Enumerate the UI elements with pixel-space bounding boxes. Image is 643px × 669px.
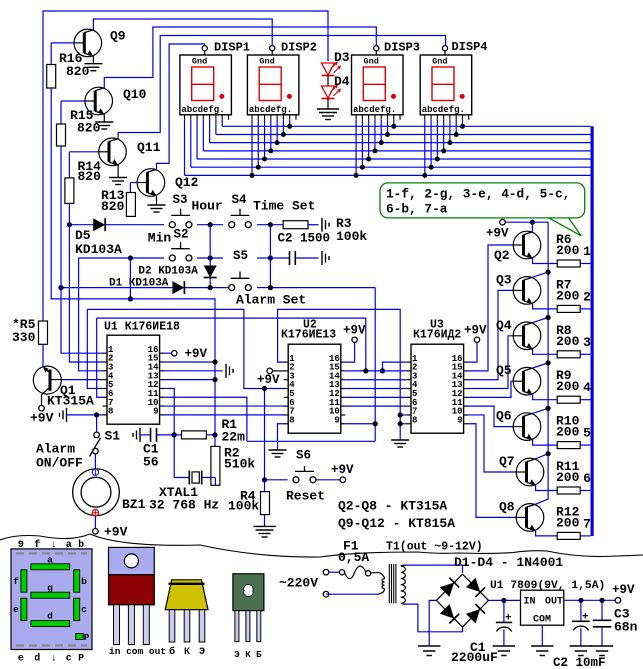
resistor R13 820 [101, 183, 135, 217]
svg-text:Gnd: Gnd [364, 57, 379, 67]
svg-text:Gnd: Gnd [259, 57, 274, 67]
wire U3 pin9 to Q8 base [468, 424, 516, 518]
label Time Set [253, 199, 315, 214]
svg-text:+9V: +9V [343, 324, 366, 338]
wire U3 pin13 to Q4 base [468, 336, 513, 389]
transistor Q10 [85, 87, 147, 115]
bus right vertical [591, 126, 594, 536]
svg-text:2200uF: 2200uF [451, 650, 498, 665]
resistor R1 22m [172, 417, 246, 445]
svg-text:Э: Э [234, 650, 240, 660]
capacitor C2 1500 [270, 232, 330, 266]
display pin drops to bus [185, 120, 465, 178]
svg-text:Q4: Q4 [496, 318, 512, 333]
svg-text:C2 10mF: C2 10mF [553, 656, 606, 669]
svg-text:820: 820 [101, 199, 125, 214]
wire U3 pin14 to Q3 base [468, 290, 513, 379]
wire alarm row [58, 285, 375, 290]
label Q9-Q12 KT815A [338, 516, 455, 531]
svg-text:510k: 510k [224, 457, 255, 472]
terminal +9V Q1 [30, 405, 54, 425]
svg-text:200: 200 [556, 379, 580, 394]
wire Q10 base [61, 100, 85, 102]
wire U3 pin12 to Q5 base [468, 381, 513, 397]
wire S1 to buzzer [94, 454, 96, 469]
switch S4 [229, 193, 252, 228]
label Min [148, 231, 172, 246]
svg-text:P: P [78, 654, 84, 665]
svg-text:К176ИД2: К176ИД2 [413, 329, 461, 342]
label Hour [192, 199, 223, 214]
svg-text:c: c [66, 654, 72, 665]
wire U3 pin11 to Q6 base [468, 406, 513, 426]
switch S2 [169, 228, 192, 262]
wire Q11 base [69, 151, 98, 153]
diode D1 KD103A [109, 278, 184, 295]
wire rail under U2 [247, 440, 375, 442]
transistor Q12 [137, 169, 199, 197]
svg-text:abcdefg.: abcdefg. [422, 105, 465, 115]
svg-text:S3: S3 [173, 193, 188, 207]
svg-text:KT315A: KT315A [47, 394, 94, 409]
terminal +9V U2 pin2 [257, 368, 285, 387]
svg-text:b: b [78, 539, 84, 551]
svg-text:+9V: +9V [257, 373, 280, 387]
switch S5 [229, 249, 252, 291]
wire Q2 collector [531, 222, 533, 232]
svg-text:Q10: Q10 [123, 87, 147, 102]
wire Q11 collector to DISP4 Gnd [118, 36, 446, 139]
terminal +9V buzzer [93, 516, 128, 540]
wire bridge to IN [489, 598, 521, 603]
IC U1 K176IE18 [103, 321, 180, 425]
svg-text:d: d [47, 611, 53, 622]
svg-text:9: 9 [18, 540, 24, 551]
svg-text:~220V: ~220V [279, 576, 318, 591]
svg-text:S2: S2 [174, 228, 189, 242]
svg-text:KD103A: KD103A [75, 242, 122, 257]
segment bus lines 1-7 [185, 126, 591, 175]
ground U3 pin7 pin8 [391, 412, 409, 447]
svg-text:200: 200 [556, 425, 580, 440]
diode D5 KD103A [75, 218, 122, 257]
svg-text:+9V: +9V [464, 324, 487, 338]
resistor R3 100k [283, 216, 367, 244]
wire hour row [67, 222, 283, 227]
wire Q4 collector [533, 315, 551, 323]
svg-text:820: 820 [78, 169, 102, 184]
switch S6 [293, 449, 316, 483]
svg-text:200: 200 [556, 470, 580, 485]
label ~220V [279, 576, 318, 591]
transistor Q6 [496, 409, 541, 441]
resistor R6 200 [556, 232, 591, 267]
svg-text:Q12: Q12 [175, 175, 199, 190]
svg-text:68n: 68n [614, 620, 638, 635]
svg-text:Hour: Hour [192, 199, 223, 214]
transistor Q2 [494, 231, 541, 263]
wire U2 pin9 [345, 421, 378, 426]
resistor R10 200 [556, 414, 591, 449]
wire U1 pin16 +9V [164, 347, 208, 361]
resistor R9 200 [556, 368, 591, 403]
ground U1 pin14 [164, 364, 233, 378]
wire min row [128, 255, 273, 260]
terminal mains top [323, 569, 329, 575]
svg-text:5: 5 [583, 426, 591, 441]
svg-text:К176ИЕ13: К176ИЕ13 [281, 329, 336, 342]
svg-text:+9V: +9V [104, 525, 128, 540]
svg-text:9: 9 [153, 407, 158, 417]
package KT815 pinout [165, 580, 208, 658]
transistor Q4 [496, 318, 541, 350]
wire reset column [262, 386, 267, 480]
svg-text:S1: S1 [105, 429, 121, 444]
svg-text:К: К [245, 650, 251, 660]
svg-text:ON/OFF: ON/OFF [36, 456, 83, 471]
svg-text:8: 8 [289, 415, 294, 425]
transistor Q9 [74, 29, 126, 57]
svg-text:D2 KD103A: D2 KD103A [138, 266, 198, 278]
svg-text:4: 4 [583, 380, 591, 395]
terminal mains bottom [323, 591, 329, 597]
regulator U1 7809 [521, 590, 564, 655]
svg-text:Reset: Reset [286, 489, 325, 504]
svg-text:g: g [47, 583, 53, 594]
wire U1 pin15 [164, 359, 218, 364]
svg-text:56: 56 [143, 455, 159, 470]
resistor R7 200 [556, 277, 591, 312]
svg-text:+9V: +9V [486, 227, 509, 241]
svg-text:330: 330 [12, 330, 36, 345]
wire Q12 collector to DISP1 Gnd [157, 44, 205, 169]
svg-text:200: 200 [556, 288, 580, 303]
svg-text:Q8: Q8 [499, 499, 515, 514]
ground Q12 emitter [148, 196, 166, 212]
svg-text:OUT: OUT [545, 597, 563, 608]
svg-text:Min: Min [148, 231, 172, 246]
wire rail to U2 pin4 [87, 309, 284, 388]
transistor Q1 KT315A [33, 344, 94, 408]
wire alarm col down [374, 288, 376, 442]
wire S6 to +9V [316, 463, 354, 483]
transformer T1 [326, 564, 407, 604]
buzzer BZ1 [73, 469, 146, 516]
terminal +9V Q2 [486, 219, 548, 240]
wire U1 pin10 to U2 pin7 [164, 405, 285, 407]
wire +9V rail [547, 222, 549, 499]
wire U2-U3 pin14-pin3 [345, 379, 406, 381]
wire Q8 emitter [536, 531, 558, 536]
transistor Q5 [496, 363, 541, 395]
svg-text:+: + [505, 613, 512, 625]
svg-text:S5: S5 [233, 249, 248, 263]
wire secondary bottom [407, 604, 463, 632]
svg-text:Q2-Q8 - KT315A: Q2-Q8 - KT315A [338, 499, 447, 514]
wire U2-U3 pin13-pin4 [345, 388, 406, 390]
svg-text:Alarm: Alarm [36, 442, 75, 457]
7-seg display DISP2 [247, 41, 317, 120]
svg-text:+: + [582, 612, 589, 624]
svg-text:Time Set: Time Set [253, 199, 315, 214]
svg-text:abcdefg.: abcdefg. [353, 105, 396, 115]
svg-text:К: К [184, 647, 190, 658]
wire rail R16col to R2col [51, 88, 215, 435]
svg-text:C2 1500: C2 1500 [278, 232, 331, 246]
resistor R5 330 [12, 317, 48, 345]
svg-text:Q9-Q12 - KT815A: Q9-Q12 - KT815A [338, 516, 455, 531]
svg-text:in com out: in com out [109, 646, 166, 657]
crystal XTAL1 [149, 435, 219, 513]
ground Q11 emitter [109, 165, 127, 185]
wire rail col96 to U3pin2 row [97, 318, 366, 371]
svg-text:abcdefg.: abcdefg. [249, 105, 292, 115]
label Q2-Q8 KT315A [338, 499, 447, 514]
wire Q9 base [51, 42, 74, 44]
wire Q8 collector [536, 499, 549, 504]
svg-text:Q3: Q3 [496, 272, 512, 287]
wire U1 pin12 osc [164, 388, 174, 434]
svg-text:D1-D4 - 1N4001: D1-D4 - 1N4001 [454, 555, 563, 570]
svg-text:c: c [81, 604, 87, 615]
svg-text:б: б [169, 645, 175, 658]
svg-text:abcdefg.: abcdefg. [181, 105, 224, 115]
svg-text:200: 200 [556, 334, 580, 349]
7-seg display DISP3 [352, 41, 421, 120]
wire Q12 base [130, 182, 137, 184]
svg-text:3: 3 [583, 335, 591, 350]
label Alarm ON/OFF [36, 442, 83, 471]
svg-text:DISP2: DISP2 [281, 41, 317, 55]
svg-text:32 768 Hz: 32 768 Hz [149, 498, 219, 513]
svg-text:100k: 100k [228, 499, 259, 514]
package KT315 pinout [233, 574, 264, 660]
wire U2-U3 pin11-pin6 [345, 405, 406, 407]
ground U1 pin8 [60, 408, 103, 422]
7-segment pinout diagram [11, 539, 92, 665]
svg-text:BZ1: BZ1 [122, 497, 146, 512]
svg-text:b: b [81, 576, 87, 587]
svg-text:+9V: +9V [331, 463, 354, 477]
fuse F1 0,5A [329, 539, 371, 579]
wire U2-U3 pin12-pin5 [345, 396, 406, 398]
capacitor C3 68n [591, 600, 638, 655]
resistor R8 200 [556, 323, 591, 358]
resistor R16 820 [47, 43, 90, 88]
svg-text:100k: 100k [336, 229, 367, 244]
wire Q5 emitter [533, 394, 558, 399]
7-seg display DISP4 [420, 40, 487, 120]
wire Q2 emitter [533, 258, 558, 263]
svg-text:DISP3: DISP3 [384, 41, 420, 55]
LED D3 [322, 50, 350, 76]
capacitor C1 56 [133, 428, 174, 470]
svg-text:9: 9 [334, 415, 339, 425]
svg-text:f: f [13, 576, 19, 587]
wire U1 pin11 [164, 397, 247, 441]
wire R13 col to rail [128, 258, 133, 302]
svg-text:↓: ↓ [51, 654, 57, 665]
ground bridge [418, 600, 440, 655]
svg-text:Q5: Q5 [496, 363, 512, 378]
svg-text:820: 820 [66, 64, 90, 79]
svg-text:0,5A: 0,5A [338, 550, 369, 565]
capacitor C2 10mF [553, 600, 606, 669]
wire Q6 emitter [533, 440, 558, 445]
svg-text:Q7: Q7 [499, 454, 515, 469]
transistor Q3 [496, 272, 541, 304]
wire rail col to U1 pin6 [97, 318, 103, 397]
switch S1 [90, 415, 121, 457]
svg-text:+9V: +9V [185, 347, 208, 361]
svg-text:8: 8 [412, 415, 417, 425]
label Alarm Set [236, 293, 306, 308]
svg-text:a: a [66, 540, 72, 551]
svg-text:IN: IN [524, 597, 536, 608]
wire mains top lead [306, 571, 323, 573]
svg-text:U1 К176ИЕ18: U1 К176ИЕ18 [104, 321, 180, 334]
IC U2 K176IE13 [281, 319, 345, 434]
wire rail col to U1 pin5 [87, 309, 102, 388]
svg-text:200: 200 [556, 243, 580, 258]
wire Q5 collector [533, 360, 551, 368]
resistor R15 820 [57, 101, 101, 146]
svg-text:200: 200 [556, 515, 580, 530]
wire R14 col to U1 pin2 [69, 203, 102, 362]
diode D2 KD103A [138, 266, 216, 278]
transistor Q8 [499, 499, 544, 531]
7-seg display DISP1 [180, 41, 250, 120]
ground Q10 emitter [95, 114, 113, 129]
wire R15 col to U1 pin1 [61, 146, 103, 353]
wire reset node [262, 477, 288, 482]
svg-text:D3: D3 [334, 50, 350, 65]
label D1-D4 1N4001 [454, 555, 563, 570]
wire U2 pin16 +9V [343, 324, 366, 363]
svg-text:Q2: Q2 [494, 248, 510, 263]
svg-text:T1(out ~9-12V): T1(out ~9-12V) [386, 541, 483, 554]
svg-text:d: d [34, 653, 40, 665]
wire U1 pin13 [164, 377, 218, 382]
svg-text:6: 6 [583, 471, 591, 486]
IC U3 K176ID2 [407, 319, 468, 434]
svg-text:7: 7 [583, 516, 591, 531]
transistor Q7 [499, 454, 544, 486]
svg-text:22m: 22m [222, 430, 246, 445]
wire Q9 collector to DISP2 Gnd [93, 19, 272, 48]
label Reset [286, 489, 325, 504]
wire U3 pin15 to Q2 base [468, 245, 513, 371]
callout segment map note [380, 183, 585, 236]
svg-text:DISP1: DISP1 [214, 41, 250, 55]
wire Q3 emitter [533, 304, 558, 309]
wire U3 pin16 +9V [464, 324, 487, 363]
switch S3 [169, 193, 192, 228]
ground D3 D4 [317, 99, 339, 120]
resistor R4 100k [228, 480, 270, 515]
wire U1 pin9 to U2 pin8 [164, 414, 285, 416]
bridge rectifier D1-D4 [436, 574, 488, 627]
LED D4 [322, 74, 350, 99]
wire Q7 emitter [536, 485, 558, 490]
wire secondary top [406, 565, 463, 573]
wire Q6 collector [533, 406, 551, 414]
wire min-row col to U1 pin3 [79, 258, 131, 371]
wire Q10 collector to DISP3 Gnd [104, 27, 376, 88]
transistor Q11 [99, 138, 161, 166]
resistor R12 200 [556, 504, 591, 539]
svg-text:6-b, 7-a: 6-b, 7-a [386, 202, 448, 217]
svg-text:COM: COM [533, 615, 551, 626]
wire Q7 collector [536, 451, 551, 459]
svg-text:Б: Б [256, 650, 262, 660]
svg-text:f: f [34, 539, 40, 551]
svg-text:D5: D5 [75, 228, 91, 243]
wire U2 pin8 ground [269, 424, 287, 457]
svg-text:S6: S6 [296, 449, 311, 463]
svg-text:D4: D4 [334, 74, 350, 89]
wire U2 pin15 to U3 pin2 [345, 368, 406, 373]
wire U2 pin13 riser to U3 pin1 [380, 362, 407, 373]
wire top border to D3/D4 [43, 11, 328, 321]
label U1 7809 [490, 580, 605, 592]
svg-text:Q11: Q11 [137, 140, 161, 155]
wire node column S [210, 225, 270, 288]
svg-text:1: 1 [583, 244, 591, 259]
label T1 [386, 541, 483, 554]
svg-text:Q9: Q9 [110, 29, 126, 44]
svg-text:Q6: Q6 [496, 409, 512, 424]
package 7809 pinout [109, 547, 167, 657]
svg-text:Alarm Set: Alarm Set [236, 293, 306, 308]
capacitor C1 2200uF [451, 600, 515, 665]
svg-text:D1 KD103A: D1 KD103A [109, 278, 169, 290]
svg-text:S4: S4 [232, 193, 248, 207]
svg-text:Gnd: Gnd [432, 57, 447, 67]
svg-text:e: e [13, 604, 19, 615]
wire OUT to +9V [564, 583, 635, 603]
ground R4 [254, 515, 277, 537]
wire Q3 collector [533, 270, 551, 278]
torn paper edge [0, 534, 643, 557]
svg-text:Gnd: Gnd [192, 57, 207, 67]
wire Q4 emitter [533, 349, 558, 354]
resistor R2 510k [211, 435, 256, 485]
svg-text:+9V: +9V [612, 583, 635, 597]
svg-text:1-f, 2-g, 3-e, 4-d, 5-c,: 1-f, 2-g, 3-e, 4-d, 5-c, [386, 187, 570, 202]
wire rail U2pin1 to U3 ground col [278, 309, 401, 415]
resistor R14 820 [65, 152, 101, 204]
svg-text:2: 2 [583, 289, 591, 304]
svg-text:P: P [84, 632, 90, 643]
svg-text:820: 820 [77, 121, 101, 136]
svg-text:DISP4: DISP4 [452, 40, 488, 54]
svg-text:8: 8 [108, 407, 113, 417]
svg-text:Э: Э [199, 647, 205, 658]
wire Q1 base to U1 pin4 [63, 379, 103, 381]
svg-text:↓: ↓ [51, 540, 57, 551]
svg-text:9: 9 [457, 415, 462, 425]
svg-text:a: a [47, 555, 53, 566]
resistor R11 200 [556, 459, 591, 494]
svg-text:+9V: +9V [30, 411, 54, 426]
svg-text:e: e [18, 654, 24, 665]
wire U3 pin10 to Q7 base [468, 415, 516, 472]
ground Q9 emitter [84, 56, 102, 71]
